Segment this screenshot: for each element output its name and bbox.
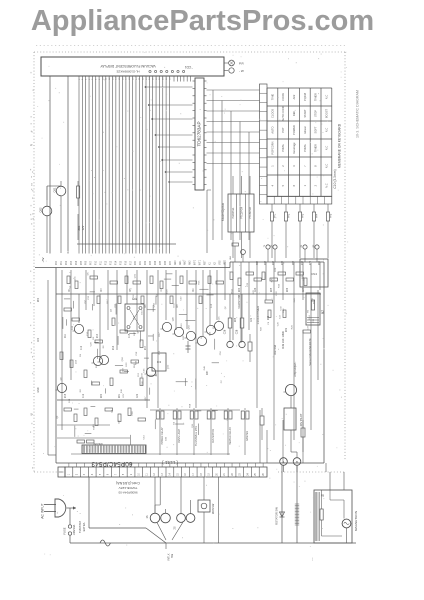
resistor R33 — [260, 408, 264, 440]
svg-text:P04: P04 — [76, 260, 78, 265]
svg-text:VSS: VSS — [219, 260, 221, 265]
svg-text:P23: P23 — [150, 260, 152, 265]
svg-text:TMOSTAT: TMOSTAT — [78, 521, 82, 533]
board outline bottom edge right part — [278, 471, 345, 473]
wire matrix to micom — [207, 190, 211, 253]
transistor Q4 — [144, 367, 155, 376]
keyboard connector pin strip — [260, 84, 268, 204]
svg-text:PW2/PG1: PW2/PG1 — [232, 207, 235, 219]
transistor Q2 — [97, 355, 108, 364]
key scan wires — [207, 90, 260, 164]
svg-text:P24: P24 — [155, 260, 157, 265]
svg-text:DAMPER: DAMPER — [246, 431, 249, 442]
svg-text:POWER RELAY: POWER RELAY — [161, 427, 164, 445]
svg-text:24V PILOT: 24V PILOT — [299, 413, 303, 426]
wire relay feed — [217, 477, 219, 543]
svg-text:C12: C12 — [81, 345, 83, 350]
svg-text:CD1: CD1 — [185, 65, 192, 69]
main circuit outline left — [55, 268, 57, 464]
svg-text:C27: C27 — [303, 287, 305, 292]
svg-text:P16: P16 — [125, 260, 127, 265]
driver IC U2 TD62783AP — [193, 78, 207, 190]
wire HV A — [281, 465, 283, 543]
secondary interlock switch — [172, 477, 195, 540]
display segment test pads — [149, 70, 185, 72]
svg-text:N.C: N.C — [324, 128, 328, 133]
connector CN2 Mode/Option — [228, 194, 254, 232]
svg-text:P20: P20 — [135, 260, 137, 265]
primary interlock switch — [146, 477, 170, 540]
svg-text:INT0: INT0 — [195, 259, 197, 265]
svg-text:C60: C60 — [38, 337, 40, 342]
svg-text:MEMBRANE OR KEYBOARD: MEMBRANE OR KEYBOARD — [338, 123, 342, 168]
connector CN4 — [300, 259, 328, 287]
svg-text:P27: P27 — [170, 260, 172, 265]
svg-text:R23: R23 — [239, 287, 241, 292]
svg-text:INT1: INT1 — [200, 259, 202, 265]
svg-text:R13: R13 — [97, 333, 99, 338]
svg-text:R39: R39 — [286, 327, 288, 332]
svg-text:C28: C28 — [236, 329, 239, 334]
svg-text:Mode/Option: Mode/Option — [221, 203, 225, 221]
key return wires — [213, 90, 249, 240]
svg-text:12V: 12V — [81, 225, 85, 230]
thermal cutout TCO — [100, 540, 110, 546]
capacitor C28 — [236, 294, 246, 348]
microcontroller IC1 (hatched) — [82, 445, 146, 454]
edge connector CN-A pin strip — [65, 467, 267, 477]
svg-text:PIZZA: PIZZA — [281, 144, 285, 152]
label MICOM — [94, 442, 103, 446]
segment drive jog wires to U2 — [145, 86, 193, 183]
svg-text:VACUUM FLUORESCENT DISPLAY: VACUUM FLUORESCENT DISPLAY — [99, 64, 155, 68]
svg-text:SW: SW — [171, 553, 174, 558]
display pin stubs — [50, 76, 191, 82]
zener ZD1 12V — [77, 214, 85, 240]
membrane key matrix grid SW1-SW30 — [267, 88, 332, 196]
svg-text:R32: R32 — [268, 315, 270, 320]
pilot transformer T2 — [284, 396, 303, 458]
svg-text:reheat: reheat — [303, 126, 307, 134]
svg-text:MAGNETRON: MAGNETRON — [354, 511, 358, 531]
svg-text:N.C: N.C — [324, 164, 328, 169]
transistor Q14 — [195, 336, 206, 345]
svg-text:CN4: CN4 — [311, 272, 317, 276]
wire HV box feed 1 — [329, 472, 331, 490]
IC3 reset — [152, 353, 166, 371]
photocoupler G02 — [125, 297, 144, 331]
display data bus wires — [79, 82, 169, 245]
svg-text:INTLK: INTLK — [168, 553, 171, 560]
svg-text:C19: C19 — [83, 393, 85, 398]
capacitor C33 — [301, 420, 305, 452]
svg-text:TD62783AP: TD62783AP — [197, 121, 202, 146]
label C10 (3.3mm) — [333, 169, 337, 188]
main circuit outline bottom — [56, 462, 324, 464]
inner bottom rail — [71, 453, 230, 455]
label Osc 5nd — [273, 344, 277, 355]
svg-text:R18: R18 — [65, 393, 67, 398]
svg-text:P17: P17 — [130, 260, 132, 265]
svg-text:R43: R43 — [301, 213, 304, 218]
svg-text:ZD1: ZD1 — [77, 225, 81, 230]
scan artifact dotted row — [36, 45, 345, 47]
transistor Q7 — [283, 384, 296, 395]
board outline right edge — [344, 52, 346, 460]
GND rail — [57, 399, 150, 401]
svg-text:POPCORN: POPCORN — [270, 141, 274, 154]
rail 2 — [57, 424, 110, 426]
svg-text:C10: C10 — [211, 303, 213, 308]
resistor R51 — [77, 181, 80, 206]
svg-text:A: A — [283, 460, 285, 464]
micom pin name row — [56, 259, 226, 265]
svg-text:R26: R26 — [287, 287, 289, 292]
svg-text:AN1: AN1 — [179, 260, 182, 265]
display pin numbers — [79, 77, 171, 80]
svg-text:R25: R25 — [271, 287, 273, 292]
svg-text:START: START — [303, 109, 307, 118]
svg-text:AN2: AN2 — [184, 260, 187, 265]
+5V rail — [56, 293, 321, 295]
svg-text:AppliancePartsPros.com: AppliancePartsPros.com — [31, 5, 374, 37]
board outline top edge — [34, 51, 345, 53]
transistor Q51 — [53, 181, 66, 253]
capacitor C26 — [224, 294, 234, 348]
svg-text:P10: P10 — [96, 260, 98, 265]
wire from strip 160 — [155, 477, 160, 513]
svg-text:AUTO COOK: AUTO COOK — [281, 105, 285, 121]
test point connectors — [264, 244, 319, 262]
svg-text:P26: P26 — [165, 260, 167, 265]
svg-text:FUSE: FUSE — [63, 527, 67, 534]
main circuit outline top — [35, 262, 324, 268]
svg-text:Sensor REGENERATE: Sensor REGENERATE — [308, 338, 312, 366]
label MAGNETRON — [354, 511, 358, 531]
svg-text:FAN MOTOR: FAN MOTOR — [212, 429, 215, 443]
indicator lamp P.R — [224, 60, 244, 66]
connector ring B — [293, 458, 301, 472]
svg-text:C15: C15 — [129, 333, 131, 338]
svg-text:EXTRA: EXTRA — [82, 522, 86, 531]
svg-text:MON.SW: MON.SW — [212, 503, 215, 514]
svg-text:POT: POT — [281, 127, 285, 133]
svg-text:P02: P02 — [66, 260, 68, 265]
transistor Q13 — [184, 331, 195, 340]
label part no — [118, 491, 138, 495]
pull-up resistors R41-R45 — [270, 204, 332, 258]
svg-text:DEF: DEF — [292, 110, 296, 116]
label CLOCK/TIMER — [256, 306, 260, 324]
svg-text:BZ: BZ — [321, 310, 325, 314]
svg-text:HEATER RELAY: HEATER RELAY — [229, 427, 232, 445]
monitor switch — [198, 477, 215, 543]
svg-text:TIMER: TIMER — [314, 93, 318, 101]
transistor Q16 — [212, 321, 223, 330]
wire live down — [69, 508, 71, 525]
svg-text:P21: P21 — [140, 260, 142, 265]
svg-text:AUTO: AUTO — [270, 126, 274, 133]
svg-text:N.C: N.C — [324, 146, 328, 151]
svg-text:AC INPUT: AC INPUT — [41, 503, 45, 518]
svg-text:SOFT: SOFT — [314, 126, 318, 133]
svg-text:CLOCK: CLOCK — [270, 109, 274, 118]
svg-text:beverage: beverage — [292, 142, 296, 153]
indicator lamp W — [224, 68, 244, 73]
svg-text:C24: C24 — [255, 287, 257, 292]
svg-text:BOOST: BOOST — [324, 109, 328, 118]
svg-text:N.C: N.C — [324, 95, 328, 100]
short interconnect wires — [63, 274, 219, 445]
svg-text:PQRM: PQRM — [303, 93, 307, 101]
wire plug output arrow — [67, 506, 77, 509]
svg-text:Q51: Q51 — [53, 187, 57, 192]
wire VDISP left — [49, 82, 51, 254]
paper speckle (scan noise) — [30, 52, 348, 561]
svg-text:R42: R42 — [287, 213, 290, 218]
capacitor C41 — [77, 440, 85, 443]
capacitor C42 — [87, 440, 95, 443]
svg-text:STOP: STOP — [314, 110, 318, 117]
svg-text:P01: P01 — [61, 260, 63, 265]
interlock node — [166, 543, 174, 561]
label +5V — [41, 257, 45, 262]
svg-text:R14: R14 — [113, 345, 115, 350]
label AC INPUT — [41, 503, 45, 518]
keyboard bottom pin strip — [267, 197, 332, 205]
board outline left edge — [33, 52, 35, 472]
svg-text:IC3: IC3 — [157, 360, 162, 364]
rail 4 — [150, 409, 240, 411]
svg-text:P05: P05 — [81, 260, 83, 265]
component reference labels — [65, 287, 305, 398]
high voltage unit (HV transformer box) — [314, 490, 352, 543]
svg-text:POWER: POWER — [292, 125, 296, 135]
label Amp Repar — [293, 363, 297, 377]
buzzer BZ — [306, 293, 325, 325]
header watermark text AppliancePartsPros.com — [31, 5, 374, 37]
discrete resistors and capacitors — [60, 272, 311, 426]
connector key cell — [58, 467, 65, 477]
svg-text:Amp Repar: Amp Repar — [293, 363, 297, 377]
capacitor C31 — [248, 334, 252, 362]
svg-text:C26: C26 — [224, 329, 227, 334]
diode D10 — [280, 512, 285, 517]
svg-text:P13: P13 — [110, 260, 112, 265]
label 60P54C/P543 — [91, 460, 132, 467]
svg-text:P07: P07 — [91, 260, 93, 265]
svg-text:R44: R44 — [315, 213, 318, 218]
label TY50B — [118, 486, 138, 490]
svg-text:P00: P00 — [56, 260, 58, 265]
svg-text:P03: P03 — [71, 260, 73, 265]
left rail wire — [48, 280, 56, 455]
wire filament left — [67, 82, 69, 254]
connector ring A — [280, 458, 288, 472]
AC plug P1 — [44, 499, 66, 517]
svg-text:60P54C/P543: 60P54C/P543 — [91, 460, 132, 467]
svg-text:Cntrl.(3,8/1NA): Cntrl.(3,8/1NA) — [116, 481, 140, 485]
label ROTATOR SW — [275, 507, 279, 525]
svg-text:R20: R20 — [101, 393, 103, 398]
wire HV B — [296, 465, 298, 543]
strip stub wires — [69, 463, 263, 467]
transistor Q12 — [172, 327, 183, 336]
svg-text:COOK: COOK — [281, 93, 285, 101]
transistor Q1 — [72, 324, 83, 333]
svg-text:R17: R17 — [145, 345, 147, 350]
fuse F1 100V/20A — [63, 524, 77, 543]
svg-text:100V/20A: 100V/20A — [73, 524, 76, 535]
svg-text:C29: C29 — [251, 317, 253, 322]
micom pin name row right — [257, 260, 321, 265]
magnetron MG1 — [342, 519, 351, 543]
svg-text:P12: P12 — [106, 260, 108, 265]
svg-text:GND: GND — [38, 387, 40, 392]
board outline bottom edge left part — [34, 471, 62, 473]
internal signal wires — [62, 262, 320, 440]
label Sensor REGENERATE — [308, 338, 312, 366]
label EXTRA THERMOSTAT — [78, 521, 86, 533]
svg-text:OVEN LAMP: OVEN LAMP — [178, 429, 181, 443]
svg-text:A02: A02 — [292, 94, 296, 99]
svg-text:2S: 2S — [174, 526, 177, 529]
svg-text:P06: P06 — [86, 260, 88, 265]
svg-text:B: B — [296, 460, 298, 464]
label R39 33K 1/8W — [281, 331, 285, 349]
svg-text:TIME: TIME — [270, 94, 274, 100]
small value labels — [57, 267, 315, 441]
svg-text:10-3. SCHEMATIC DIAGRAM: 10-3. SCHEMATIC DIAGRAM — [356, 90, 360, 138]
svg-text:PIZZA: PIZZA — [303, 144, 307, 152]
transistor Q3 — [55, 383, 66, 392]
svg-text:TW50B-1E5V: TW50B-1E5V — [118, 486, 138, 490]
transistor Q52 — [39, 200, 52, 253]
svg-text:MICOM: MICOM — [94, 442, 103, 446]
svg-text:N.C: N.C — [324, 183, 328, 188]
svg-text:1S: 1S — [146, 515, 149, 518]
label MEMBRANE OR KEYBOARD — [338, 123, 342, 168]
svg-text:HL-D10889WKZE: HL-D10889WKZE — [116, 70, 139, 74]
bus collector wire — [77, 243, 176, 245]
label VARISTOR — [237, 295, 241, 309]
left margin labels — [38, 297, 40, 392]
svg-text:TURNTABLE MTR: TURNTABLE MTR — [195, 426, 198, 446]
Mode/Option wires — [233, 176, 250, 258]
svg-text:960BP54A-05: 960BP54A-05 — [118, 491, 138, 495]
svg-text:R39 33K 1/8W: R39 33K 1/8W — [281, 331, 285, 349]
svg-text:P22: P22 — [145, 260, 147, 265]
wire neutral from connector — [88, 477, 90, 528]
svg-text:P25: P25 — [160, 260, 162, 265]
svg-text:R60: R60 — [38, 297, 40, 302]
note 10-3 schematic (page label) — [356, 90, 360, 138]
svg-text:+5V: +5V — [41, 257, 45, 262]
key matrix key labels — [270, 93, 328, 188]
svg-text:RST: RST — [205, 260, 207, 265]
svg-text:TIMER: TIMER — [314, 144, 318, 152]
wire neutral horizontal — [89, 528, 166, 543]
zener diode D5 — [186, 341, 191, 353]
svg-text:C10 (3.3mm): C10 (3.3mm) — [333, 169, 337, 188]
relay driver array with load labels — [156, 408, 249, 455]
rail 3 — [57, 437, 130, 439]
svg-text:Osc 5nd: Osc 5nd — [273, 344, 277, 355]
main circuit outline right — [323, 262, 325, 463]
wire HV box feed 2 — [343, 472, 345, 490]
wire Q51-Q52 — [47, 186, 61, 200]
label Cntrl Board — [116, 481, 140, 485]
svg-text:P15: P15 — [120, 260, 122, 265]
transistor Q11 — [160, 322, 171, 331]
transistor Q15 — [204, 325, 215, 334]
svg-text:VARISTOR: VARISTOR — [237, 295, 241, 309]
label LL41 — [162, 460, 178, 465]
svg-text:CLOCK/TIMER: CLOCK/TIMER — [256, 306, 260, 324]
label Mode/Option — [221, 203, 225, 221]
svg-text:C22: C22 — [137, 393, 139, 398]
right side wires — [260, 290, 318, 463]
svg-text:- W: - W — [239, 69, 244, 73]
svg-text:P14: P14 — [115, 260, 117, 265]
svg-text:Q52: Q52 — [39, 207, 43, 212]
svg-text:AN0: AN0 — [174, 260, 177, 265]
wire HV box feed 0 — [325, 463, 327, 472]
svg-text:R11: R11 — [65, 333, 67, 338]
svg-text:AN3: AN3 — [189, 260, 192, 265]
varistor VA1 — [229, 243, 245, 262]
svg-text:PTC2/PG4: PTC2/PG4 — [241, 206, 244, 219]
display DSP1 (vacuum fluorescent display) — [41, 57, 224, 76]
transistor Q — [91, 356, 102, 365]
svg-text:ROTATOR SW: ROTATOR SW — [275, 507, 279, 525]
bottom AC wire — [70, 542, 356, 544]
svg-text:R45: R45 — [329, 213, 332, 218]
label block power relay (dense) — [295, 504, 299, 525]
bus drop wires to micom — [79, 244, 169, 254]
svg-text:PTC6/PG5: PTC6/PG5 — [249, 206, 252, 219]
